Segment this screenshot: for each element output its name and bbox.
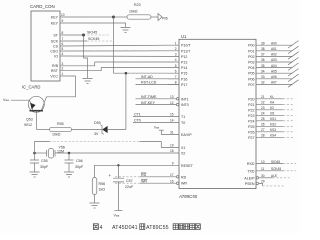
- caption char YU (with): [140, 224, 145, 230]
- svg-text:INT-TIME: INT-TIME: [141, 95, 157, 99]
- svg-text:6: 6: [62, 42, 64, 46]
- svg-text:ALE/P: ALE/P: [244, 176, 255, 180]
- svg-text:AT89C55: AT89C55: [178, 194, 198, 199]
- svg-text:11: 11: [261, 167, 265, 171]
- node crystal left dot: [33, 152, 36, 155]
- capacitor C55: [30, 153, 49, 172]
- svg-text:T0: T0: [181, 121, 185, 125]
- svg-text:WR: WR: [181, 182, 187, 186]
- svg-text:AT45D041: AT45D041: [112, 225, 138, 231]
- svg-text:22uF: 22uF: [125, 185, 134, 189]
- svg-text:37: 37: [261, 53, 265, 57]
- svg-text:P11/T: P11/T: [181, 49, 191, 53]
- svg-text:A05: A05: [271, 69, 277, 73]
- wire R55 to D55: [72, 129, 103, 131]
- svg-text:SIO45: SIO45: [271, 160, 280, 164]
- svg-text:Vaa: Vaa: [114, 214, 120, 218]
- svg-text:9: 9: [172, 162, 174, 166]
- svg-text:14: 14: [170, 119, 174, 123]
- svg-text:P05: P05: [248, 72, 254, 76]
- svg-text:U1: U1: [181, 34, 187, 39]
- svg-text:8: 8: [175, 81, 177, 85]
- svg-text:KEY: KEY: [51, 21, 59, 25]
- wire collector to card VCC: [47, 76, 76, 97]
- svg-text:P23: P23: [248, 114, 254, 118]
- svg-text:P21: P21: [248, 103, 254, 107]
- svg-text:CT0: CT0: [134, 119, 141, 123]
- ground (ST branch): [83, 79, 93, 84]
- svg-text:INT-AD: INT-AD: [141, 75, 153, 79]
- capacitor C57 22uF: [109, 165, 134, 210]
- wire ST (SIO45): [65, 34, 84, 36]
- svg-text:RD: RD: [181, 175, 187, 179]
- svg-text:1kΩ: 1kΩ: [99, 188, 106, 192]
- caption char TU (figure): [93, 224, 98, 230]
- pin T0, net CT0: [133, 121, 179, 123]
- svg-text:IC_CARD: IC_CARD: [22, 85, 40, 90]
- svg-text:30pF: 30pF: [75, 165, 84, 169]
- svg-text:G5: G5: [270, 112, 274, 116]
- node reset/C57 junction: [117, 164, 119, 166]
- svg-text:P04: P04: [248, 66, 254, 70]
- svg-text:SCK45: SCK45: [271, 167, 281, 171]
- svg-text:5: 5: [175, 64, 177, 68]
- pin ALE/P with bubble, net ALE: [256, 177, 258, 179]
- pin RD with bubble, net RD: [115, 176, 140, 178]
- svg-text:2: 2: [175, 47, 177, 51]
- svg-text:RD: RD: [141, 173, 147, 177]
- wire R/B to U1 pin4: [65, 62, 168, 66]
- ground (C55): [30, 172, 40, 177]
- svg-text:P03: P03: [248, 61, 254, 65]
- svg-text:18: 18: [170, 149, 174, 153]
- svg-text:4: 4: [100, 225, 103, 231]
- svg-text:19: 19: [170, 144, 174, 148]
- svg-text:P22: P22: [248, 108, 254, 112]
- svg-text:10kΩ: 10kΩ: [129, 10, 138, 14]
- svg-text:28: 28: [261, 134, 265, 138]
- svg-text:C55: C55: [41, 159, 48, 163]
- svg-text:RST: RST: [51, 69, 59, 73]
- transistor Q53: [24, 96, 47, 129]
- wire CS to U1 pin1: [65, 44, 168, 47]
- svg-text:PSEN: PSEN: [245, 182, 255, 186]
- svg-text:P07: P07: [248, 83, 254, 87]
- net flag P06: [151, 14, 168, 21]
- svg-text:A00: A00: [271, 41, 277, 45]
- wire IO to U1 pin3: [65, 55, 168, 57]
- svg-text:KL: KL: [270, 95, 274, 99]
- svg-text:7: 7: [175, 75, 177, 79]
- svg-text:CARD_CON: CARD_CON: [30, 4, 55, 9]
- mcu U1 box: [178, 34, 256, 199]
- node junction dot: [112, 16, 115, 19]
- svg-text:26: 26: [261, 123, 265, 127]
- svg-text:P06: P06: [248, 77, 254, 81]
- wire X2 line: [55, 152, 179, 154]
- node crystal right dot: [68, 152, 71, 155]
- svg-text:P00: P00: [248, 44, 254, 48]
- wire X1 line: [35, 142, 50, 154]
- net label RST-LCD to P17: [136, 83, 180, 85]
- svg-text:D55: D55: [94, 121, 101, 125]
- svg-text:29: 29: [261, 180, 265, 184]
- svg-text:A03: A03: [271, 58, 277, 62]
- U1 left inside labels P1: [181, 44, 191, 87]
- svg-text:CS: CS: [53, 44, 59, 48]
- svg-text:CT1: CT1: [134, 113, 141, 117]
- svg-text:3V: 3V: [94, 132, 99, 136]
- svg-text:39: 39: [261, 41, 265, 45]
- U1 left pin stubs P1: [168, 45, 179, 84]
- svg-text:Q53: Q53: [26, 118, 33, 122]
- bus entry slashes: [288, 41, 299, 88]
- svg-text:Vaa: Vaa: [3, 98, 9, 102]
- svg-text:16: 16: [170, 179, 174, 183]
- svg-text:7: 7: [62, 37, 64, 41]
- net label INT-AD to P16: [136, 78, 180, 80]
- svg-text:A01: A01: [271, 47, 277, 51]
- svg-text:CSO: CSO: [50, 49, 58, 53]
- svg-text:8: 8: [62, 31, 64, 35]
- svg-text:4: 4: [175, 58, 177, 62]
- svg-text:12: 12: [170, 101, 174, 105]
- svg-text:4: 4: [62, 52, 64, 56]
- svg-text:R/B: R/B: [52, 64, 59, 68]
- crystal Y56: [35, 145, 65, 158]
- svg-text:P20: P20: [248, 97, 254, 101]
- svg-text:R23: R23: [134, 3, 141, 7]
- U1 left pin numbers 1-8: [175, 41, 177, 84]
- svg-text:5: 5: [62, 47, 64, 51]
- svg-text:36: 36: [261, 58, 265, 62]
- svg-text:P25: P25: [248, 125, 254, 129]
- svg-text:AT89C55: AT89C55: [146, 225, 169, 231]
- svg-text:RXD: RXD: [247, 162, 255, 166]
- svg-text:KS2: KS2: [270, 123, 276, 127]
- svg-text:24: 24: [261, 112, 265, 116]
- ground (R56): [90, 203, 100, 208]
- svg-text:34: 34: [261, 69, 265, 73]
- wire down to zener row: [125, 73, 127, 129]
- svg-text:INT0: INT0: [181, 103, 189, 107]
- svg-text:X1: X1: [181, 146, 185, 150]
- wire RST to U1 pin5: [65, 68, 168, 71]
- svg-text:P15: P15: [181, 72, 187, 76]
- svg-text:30pF: 30pF: [40, 165, 49, 169]
- svg-text:SIO45: SIO45: [87, 31, 97, 35]
- pin INT0 with bubble: [136, 104, 177, 106]
- svg-text:RESET: RESET: [181, 164, 194, 168]
- svg-text:C56: C56: [76, 159, 83, 163]
- svg-text:9: 9: [62, 19, 64, 23]
- svg-text:IO: IO: [54, 54, 58, 58]
- svg-text:P10/T: P10/T: [181, 44, 191, 48]
- svg-text:P02: P02: [248, 55, 254, 59]
- connector pin labels: [50, 15, 59, 78]
- svg-text:38: 38: [261, 47, 265, 51]
- svg-text:1: 1: [62, 72, 64, 76]
- svg-text:25: 25: [261, 117, 265, 121]
- svg-text:R55: R55: [57, 122, 64, 126]
- svg-text:27: 27: [261, 128, 265, 132]
- wire card-detect net down to P15: [114, 17, 169, 73]
- node SIO45 dot: [82, 34, 85, 37]
- svg-text:KEY: KEY: [51, 15, 59, 19]
- svg-text:P13: P13: [181, 61, 187, 65]
- svg-text:2: 2: [62, 67, 64, 71]
- capacitor C56: [65, 153, 84, 172]
- node detect/zener junction: [125, 72, 128, 75]
- resistor R56: [92, 178, 105, 195]
- pin EA/VP with power flag: [161, 130, 179, 134]
- svg-text:17: 17: [170, 173, 174, 177]
- svg-text:P01: P01: [248, 49, 254, 53]
- wire SCK (SCK45): [65, 40, 87, 42]
- pin X1: [161, 142, 179, 148]
- svg-text:31: 31: [170, 131, 174, 135]
- ground (pin9): [121, 28, 131, 33]
- caption chars interface circuit diagram: [173, 224, 178, 230]
- svg-text:ALE: ALE: [271, 174, 277, 178]
- svg-text:TXD: TXD: [247, 169, 255, 173]
- diode D55 (zener 3V): [94, 121, 126, 136]
- resistor R23: [127, 3, 151, 19]
- svg-text:+: +: [109, 173, 112, 178]
- connector pin stubs and numbers: [60, 13, 65, 76]
- caption figure 4: [93, 224, 200, 231]
- svg-text:22: 22: [261, 101, 265, 105]
- pin RXD, net SIO45: [256, 163, 283, 165]
- wire KEY pin10 to pullup: [65, 16, 114, 18]
- svg-text:P14: P14: [181, 66, 187, 70]
- wire CSO to U1 pin2: [65, 50, 168, 52]
- U1 right bus P0 wires: [256, 45, 293, 84]
- pin PSEN with bubble: [256, 182, 258, 184]
- svg-text:T1: T1: [181, 115, 185, 119]
- svg-text:P26: P26: [248, 130, 254, 134]
- svg-text:VCC: VCC: [50, 74, 58, 78]
- svg-text:EA/VP: EA/VP: [181, 133, 192, 137]
- svg-text:32: 32: [261, 81, 265, 85]
- connector CARD_CON: [30, 4, 60, 81]
- svg-text:23: 23: [261, 106, 265, 110]
- resistor R55: [37, 122, 72, 137]
- ground (C56): [64, 172, 74, 177]
- svg-text:ST: ST: [53, 33, 58, 37]
- svg-text:10: 10: [261, 160, 265, 164]
- wire ST branch to ground: [84, 35, 88, 78]
- svg-text:35: 35: [261, 64, 265, 68]
- svg-text:KS4: KS4: [270, 134, 276, 138]
- svg-text:KS3: KS3: [270, 128, 276, 132]
- svg-text:33: 33: [261, 75, 265, 79]
- svg-text:10kΩ: 10kΩ: [52, 133, 61, 137]
- svg-text:A02: A02: [271, 53, 277, 57]
- svg-text:3: 3: [62, 62, 64, 66]
- svg-text:A06: A06: [271, 75, 277, 79]
- svg-text:R56: R56: [99, 182, 106, 186]
- svg-text:INT-KEY: INT-KEY: [141, 101, 156, 105]
- svg-text:3: 3: [175, 53, 177, 57]
- svg-text:K2: K2: [270, 106, 274, 110]
- U1 right P2 wires: [256, 99, 283, 138]
- svg-text:P06: P06: [162, 17, 168, 21]
- svg-text:P27: P27: [248, 136, 254, 140]
- wire reset line: [95, 165, 180, 177]
- svg-text:1: 1: [175, 41, 177, 45]
- svg-text:13: 13: [170, 95, 174, 99]
- svg-text:INT1: INT1: [181, 97, 189, 101]
- power flag Vaa: [3, 98, 30, 102]
- svg-text:P16: P16: [181, 77, 187, 81]
- svg-text:Vaa: Vaa: [154, 126, 160, 130]
- pin WR with bubble, net WR: [115, 182, 140, 184]
- wire KEY pin9 to ground: [65, 23, 126, 27]
- svg-text:KS1: KS1: [270, 117, 276, 121]
- svg-text:SCK: SCK: [51, 39, 59, 43]
- svg-text:10: 10: [61, 13, 65, 17]
- svg-text:A07: A07: [271, 81, 277, 85]
- svg-text:6: 6: [175, 69, 177, 73]
- pin INT1 with bubble: [136, 98, 177, 100]
- svg-text:SCK45: SCK45: [88, 37, 99, 41]
- svg-text:X2: X2: [181, 152, 185, 156]
- svg-text:A04: A04: [271, 64, 277, 68]
- svg-text:WR: WR: [141, 179, 147, 183]
- svg-text:RST-LCD: RST-LCD: [141, 81, 157, 85]
- pin TXD, net SCK45: [256, 170, 283, 172]
- svg-text:P24: P24: [248, 119, 254, 123]
- svg-text:P12: P12: [181, 55, 187, 59]
- svg-text:21: 21: [261, 95, 265, 99]
- svg-text:30: 30: [261, 174, 265, 178]
- svg-text:C57: C57: [126, 179, 133, 183]
- svg-text:15: 15: [170, 113, 174, 117]
- svg-text:P17: P17: [181, 83, 187, 87]
- svg-text:9012: 9012: [24, 123, 32, 127]
- power flag V (below C57): [114, 211, 123, 218]
- pin T1, net CT1: [133, 115, 179, 117]
